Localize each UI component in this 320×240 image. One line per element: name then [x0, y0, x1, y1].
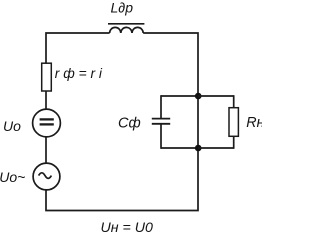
svg-text:Uн = U0: Uн = U0 [101, 220, 153, 235]
wire capacitor branch top vertical [160, 95, 162, 118]
resistor r-f [42, 63, 52, 91]
svg-text:Uo~: Uo~ [0, 169, 25, 185]
wire capacitor branch bottom [161, 147, 198, 149]
capacitor Cf plate bottom [152, 123, 170, 125]
DC symbol = bar 1 [40, 118, 54, 120]
svg-text:r ф = r i: r ф = r i [55, 66, 103, 81]
inductor Ldr core bar [108, 23, 144, 25]
wire top-left segment with left corner [46, 33, 110, 64]
source U0~ AC circle [33, 163, 60, 190]
wire left between resistor and DC source [45, 91, 47, 109]
svg-text:L∂p: L∂p [111, 0, 134, 16]
wire Rn branch top vertical [233, 95, 235, 108]
source U0 DC circle [33, 109, 61, 137]
wire capacitor branch top [161, 95, 198, 97]
svg-text:Uo: Uo [3, 118, 21, 134]
svg-text:Rн: Rн [246, 115, 262, 131]
capacitor Cf plate top [152, 118, 170, 120]
DC symbol = bar 2 [40, 123, 54, 125]
wire capacitor branch bottom vertical [160, 124, 162, 148]
wire Rn branch top [198, 95, 234, 97]
AC sine symbol [39, 173, 52, 179]
wire top-right segment joining right main wire [46, 33, 198, 211]
wire Rn branch bottom vertical [233, 136, 235, 149]
inductor Ldr humps [110, 27, 144, 33]
resistor Rn [229, 108, 238, 137]
wire Rn branch bottom [198, 147, 234, 149]
node junction bottom [195, 145, 202, 152]
node junction top [195, 93, 202, 100]
svg-text:Cф: Cф [118, 116, 141, 132]
wire left between sources [45, 137, 47, 163]
